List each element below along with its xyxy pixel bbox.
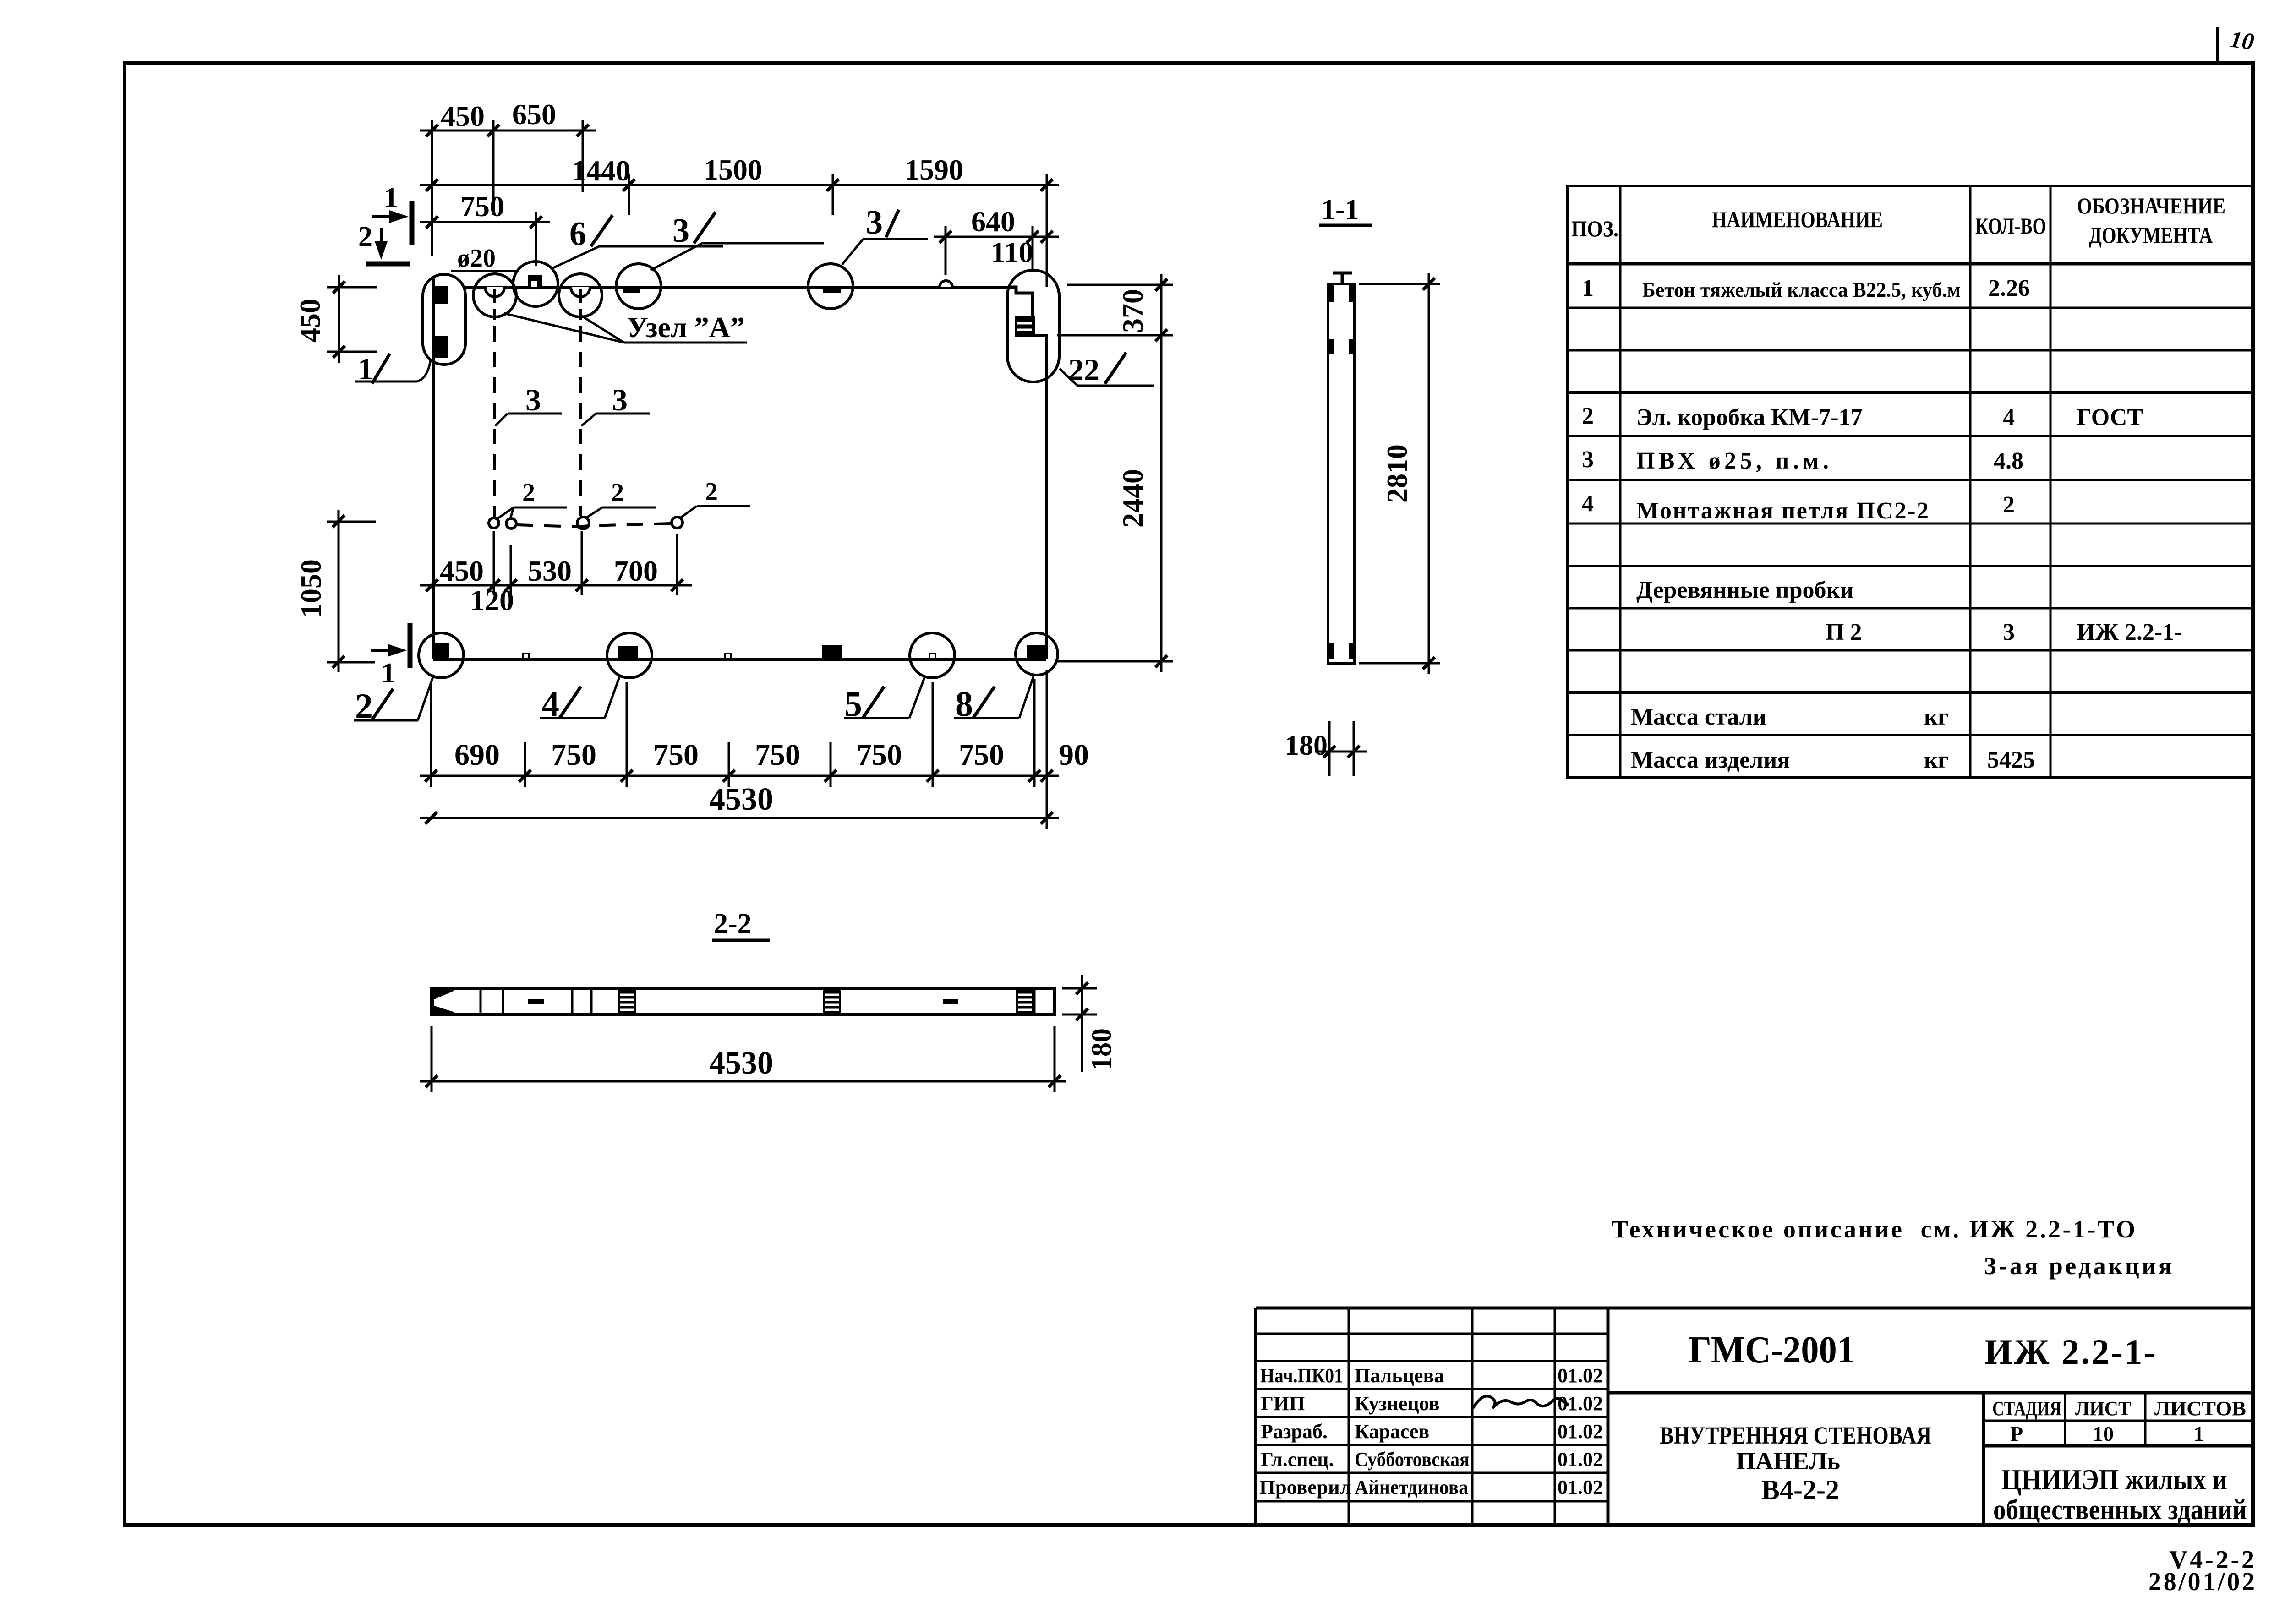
svg-text:450: 450: [294, 299, 326, 343]
callout circle 6: [513, 262, 558, 306]
svg-text:Гл.спец.: Гл.спец.: [1261, 1448, 1334, 1471]
svg-text:СТАДИЯ: СТАДИЯ: [1992, 1397, 2061, 1420]
top-right lug electrical box (hatched): [1015, 316, 1035, 335]
top-left lug lower insert (black): [433, 336, 448, 358]
section mark 1 (top): [372, 201, 412, 245]
hatched box 1: [618, 988, 636, 1014]
panel outline: right edge: [1045, 336, 1048, 659]
svg-text:3: 3: [1582, 447, 1594, 473]
callout circle 3 (left): [616, 264, 661, 309]
svg-text:10: 10: [2093, 1422, 2114, 1445]
bottom edge: middle box (black): [822, 645, 842, 659]
svg-text:01.02: 01.02: [1558, 1476, 1603, 1499]
svg-text:750: 750: [551, 738, 596, 772]
bottom dimension 4530: [420, 812, 1059, 824]
left sub-table rows: [1256, 1333, 1608, 1335]
stage table: [1984, 1420, 2253, 1422]
svg-text:750: 750: [460, 190, 504, 223]
left sub-table columns: [1348, 1308, 1350, 1525]
svg-text:1500: 1500: [704, 153, 762, 186]
dimension 4530 (section 2-2): [420, 1026, 1066, 1092]
svg-text:Проверил: Проверил: [1259, 1476, 1351, 1499]
junction circle 2d: [672, 517, 683, 528]
svg-text:общественных зданий: общественных зданий: [1993, 1494, 2247, 1526]
top-right lug (stadium): [1007, 270, 1059, 382]
svg-text:Кузнецов: Кузнецов: [1355, 1392, 1439, 1415]
svg-text:4: 4: [2003, 404, 2015, 431]
svg-text:НАИМЕНОВАНИЕ: НАИМЕНОВАНИЕ: [1712, 207, 1883, 232]
dimension row 1440/1500/1590: [420, 174, 1059, 287]
page number tick: [2216, 27, 2219, 63]
bottom edge: corner box in circle 2 (black): [433, 643, 449, 659]
svg-text:Карасев: Карасев: [1355, 1420, 1429, 1443]
svg-text:1: 1: [381, 658, 395, 689]
svg-text:750: 750: [857, 738, 902, 772]
small plug square 2: [725, 654, 731, 659]
inner dimension row 450/120/530/700: [420, 531, 692, 595]
top corner fills: [1328, 284, 1334, 302]
junction circle 2a: [489, 518, 499, 528]
dimension 180 (section 2-2 right): [1062, 975, 1097, 1072]
dashed conduit line right: [579, 326, 582, 516]
svg-text:ЛИСТ: ЛИСТ: [2075, 1397, 2131, 1420]
svg-text:3: 3: [672, 212, 689, 250]
bottom edge: box in circle 4 (black): [618, 646, 638, 659]
section 1-1 body: [1328, 284, 1355, 663]
divider lines: [480, 988, 482, 1014]
svg-text:640: 640: [971, 205, 1015, 238]
svg-text:3: 3: [866, 204, 883, 241]
svg-text:ПАНЕЛь: ПАНЕЛь: [1736, 1447, 1840, 1475]
svg-text:120: 120: [470, 584, 514, 616]
table outline: [1567, 186, 2253, 777]
table column line 3: [2050, 186, 2052, 777]
callout circle 4 (bottom): [607, 633, 652, 678]
svg-text:ГОСТ: ГОСТ: [2077, 404, 2143, 431]
svg-text:6: 6: [569, 215, 586, 253]
svg-text:90: 90: [1059, 738, 1089, 772]
svg-text:2-2: 2-2: [714, 908, 752, 939]
svg-text:2810: 2810: [1381, 444, 1413, 503]
svg-text:4530: 4530: [709, 782, 773, 817]
svg-text:1: 1: [384, 182, 398, 213]
svg-text:Узел ”А”: Узел ”А”: [627, 311, 745, 343]
svg-text:450: 450: [440, 555, 484, 587]
right dimension 370 (vertical): [1057, 274, 1173, 346]
svg-text:1440: 1440: [572, 154, 630, 187]
svg-text:Масса изделия: Масса изделия: [1631, 747, 1790, 773]
svg-text:ЦНИИЭП жилых и: ЦНИИЭП жилых и: [2001, 1463, 2227, 1496]
section mark 1 (bottom): [371, 623, 410, 668]
bottom edge: corner box in circle 8 (black): [1027, 645, 1046, 659]
bottom corner fills: [1328, 643, 1334, 659]
svg-text:П 2: П 2: [1826, 619, 1862, 645]
junction circle 2b: [506, 518, 516, 529]
svg-text:2: 2: [522, 479, 535, 507]
svg-text:750: 750: [959, 738, 1004, 772]
dimension 180 (1-1 bottom): [1315, 721, 1367, 776]
svg-text:3: 3: [525, 382, 541, 417]
lifting loop mark on top: [1333, 272, 1352, 275]
callout circle 8 (bottom): [1016, 633, 1058, 675]
svg-text:КОЛ-ВО: КОЛ-ВО: [1975, 213, 2046, 239]
svg-text:Субботовская: Субботовская: [1355, 1448, 1470, 1471]
svg-text:Разраб.: Разраб.: [1261, 1420, 1328, 1443]
conduit dash left: [528, 999, 544, 1004]
svg-text:3: 3: [2003, 619, 2015, 645]
svg-text:ЛИСТОВ: ЛИСТОВ: [2154, 1397, 2246, 1420]
svg-text:2: 2: [1582, 403, 1594, 429]
right end cap line: [1033, 988, 1036, 1014]
small hole bump on top edge: [940, 281, 952, 287]
svg-text:5425: 5425: [1987, 747, 2035, 773]
dashed line linking junction circles: [517, 523, 672, 527]
top-left lug (stadium): [423, 274, 465, 365]
svg-text:Монтажная петля ПС2-2: Монтажная петля ПС2-2: [1636, 498, 1929, 524]
svg-text:Масса стали: Масса стали: [1631, 704, 1766, 730]
svg-text:2440: 2440: [1116, 469, 1149, 528]
svg-text:ВНУТРЕННЯЯ СТЕНОВАЯ: ВНУТРЕННЯЯ СТЕНОВАЯ: [1660, 1422, 1931, 1449]
mid notches (lug level): [1328, 339, 1334, 354]
callout circle 3 (right): [808, 264, 853, 309]
svg-text:Р: Р: [2010, 1422, 2023, 1445]
svg-text:01.02: 01.02: [1558, 1364, 1603, 1387]
signature squiggle: [1473, 1396, 1569, 1408]
section mark 2 (top): [366, 228, 410, 264]
dimension row 450/650: [420, 120, 596, 256]
right dimension 2440 (vertical): [1057, 335, 1173, 672]
panel outline: top edge: [463, 286, 1011, 289]
conduit dash in circle 3 right: [823, 289, 841, 293]
svg-text:Нач.ПК01: Нач.ПК01: [1260, 1364, 1343, 1387]
small plug square 1: [523, 654, 529, 659]
svg-text:2.26: 2.26: [1988, 275, 2030, 301]
svg-text:1590: 1590: [905, 153, 963, 186]
conduit dash right: [943, 999, 958, 1004]
svg-text:Деревянные пробки: Деревянные пробки: [1636, 577, 1853, 603]
svg-text:750: 750: [653, 738, 699, 772]
svg-text:1: 1: [1582, 275, 1594, 301]
svg-text:Айнетдинова: Айнетдинова: [1355, 1476, 1468, 1499]
svg-text:Бетон тяжелый класса В22.5, ку: Бетон тяжелый класса В22.5, куб.м: [1642, 278, 1961, 301]
svg-text:750: 750: [755, 738, 800, 772]
svg-text:180: 180: [1086, 1028, 1117, 1071]
svg-text:2: 2: [705, 478, 718, 506]
svg-text:ИЖ 2.2-1-: ИЖ 2.2-1-: [2077, 619, 2182, 645]
svg-text:ø20: ø20: [457, 244, 496, 272]
svg-text:370: 370: [1116, 289, 1149, 333]
table column line 1: [1619, 186, 1622, 777]
svg-text:650: 650: [512, 98, 556, 131]
svg-text:3: 3: [612, 382, 628, 417]
electrical box in circle 6: [528, 275, 542, 287]
panel outline: bottom edge: [433, 658, 1046, 661]
svg-text:2: 2: [358, 221, 372, 252]
dashed conduit line left: [493, 326, 496, 517]
notch in top edge at A2: [571, 287, 590, 297]
left dimension 1050 (vertical): [327, 510, 376, 672]
svg-text:1: 1: [2193, 1422, 2204, 1445]
small plug square 3 (in circle 5): [929, 654, 935, 659]
table row lines: [1567, 262, 2253, 266]
svg-text:кг: кг: [1924, 747, 1949, 773]
detail circle A2 (node A, right): [559, 274, 602, 317]
svg-text:690: 690: [454, 738, 500, 772]
left end cap with wedge notch: [432, 988, 454, 1014]
svg-text:2: 2: [611, 479, 624, 507]
svg-text:ОБОЗНАЧЕНИЕ: ОБОЗНАЧЕНИЕ: [2077, 193, 2225, 218]
junction circle 2c: [577, 517, 589, 529]
left dimension 450 (vertical): [327, 275, 377, 363]
detail circle A1 (node A, left): [473, 274, 516, 317]
svg-text:Пальцева: Пальцева: [1355, 1364, 1444, 1387]
svg-text:4.8: 4.8: [1994, 448, 2023, 474]
svg-text:1-1: 1-1: [1321, 194, 1359, 225]
panel outline: left edge: [432, 277, 435, 659]
svg-text:110: 110: [991, 236, 1033, 268]
svg-text:ДОКУМЕНТА: ДОКУМЕНТА: [2089, 222, 2213, 248]
svg-text:4: 4: [1582, 490, 1594, 517]
svg-text:450: 450: [441, 100, 485, 132]
svg-text:ГМС-2001: ГМС-2001: [1689, 1329, 1855, 1371]
svg-text:10: 10: [2228, 26, 2255, 55]
bottom dimension row 690/750x5/90: [420, 670, 1059, 829]
conduit dash in circle 3 left: [623, 289, 640, 293]
svg-text:2: 2: [2003, 492, 2015, 518]
svg-text:кг: кг: [1924, 704, 1949, 730]
top-left lug insert plate (black): [433, 286, 448, 304]
notch in top edge at A1: [485, 287, 504, 297]
section 2-2 body: [432, 988, 1055, 1014]
svg-text:01.02: 01.02: [1558, 1448, 1603, 1471]
svg-text:01.02: 01.02: [1558, 1420, 1603, 1443]
svg-text:ПОЗ.: ПОЗ.: [1571, 216, 1618, 241]
dimension 2810 (vertical): [1359, 273, 1440, 674]
dimension 640 / 110: [934, 226, 1059, 275]
svg-text:ИЖ 2.2-1-: ИЖ 2.2-1-: [1984, 1332, 2156, 1372]
top-right lug step detail: [1011, 287, 1033, 316]
svg-text:1050: 1050: [295, 559, 327, 618]
svg-text:700: 700: [614, 555, 658, 587]
svg-text:4530: 4530: [709, 1046, 773, 1081]
svg-text:3-ая редакция: 3-ая редакция: [1984, 1252, 2172, 1280]
hatched box 3: [1016, 988, 1033, 1014]
svg-text:В4-2-2: В4-2-2: [1761, 1475, 1839, 1505]
hatched box 2: [823, 988, 841, 1014]
svg-text:530: 530: [528, 555, 572, 587]
callout circle 2 (bottom): [419, 633, 464, 678]
top-right lug lower step to panel right edge: [1015, 335, 1046, 382]
middle/right divider: [1608, 1391, 2253, 1395]
svg-text:Эл. коробка КМ-7-17: Эл. коробка КМ-7-17: [1636, 404, 1863, 431]
svg-text:180: 180: [1285, 730, 1328, 761]
dimension 750: [420, 212, 550, 266]
table column line 2: [1969, 186, 1972, 777]
svg-text:ГИП: ГИП: [1261, 1392, 1305, 1415]
title block outline: [1256, 1307, 2253, 1310]
callout circle 5 (bottom): [910, 633, 955, 678]
